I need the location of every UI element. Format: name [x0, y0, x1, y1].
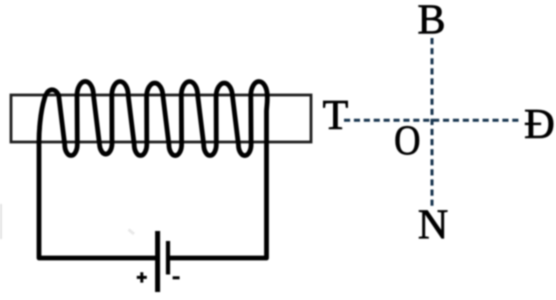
svg-text:T: T: [323, 93, 349, 139]
svg-text:O: O: [394, 117, 420, 164]
svg-text:N: N: [418, 203, 448, 249]
svg-text:B: B: [417, 0, 445, 44]
svg-text:Đ: Đ: [524, 101, 555, 148]
